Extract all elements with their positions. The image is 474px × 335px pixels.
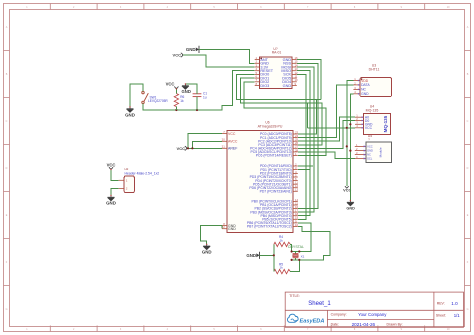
svg-text:CRYSTAL: CRYSTAL [288, 245, 304, 249]
pin 3 3.3V [255, 66, 260, 68]
svg-text:GND: GND [186, 47, 196, 52]
pin 19 PB5 [293, 218, 298, 220]
wire U6 GND pins [221, 226, 223, 229]
svg-text:AVCC: AVCC [228, 140, 238, 144]
svg-text:MQ-135: MQ-135 [366, 109, 379, 113]
pin 25 PC2 [293, 140, 298, 142]
pin 16 GND [292, 59, 297, 61]
pin 21 AREF [222, 147, 227, 149]
pin 14 PB0 [293, 200, 298, 202]
wire crystal leads [292, 251, 300, 253]
svg-text:GND: GND [346, 207, 355, 211]
wire PD0 stub [298, 165, 313, 167]
wire PB7 to crystal bottom [298, 226, 330, 260]
wire gnd to rail [260, 254, 274, 256]
wire MOSI to PB3 [297, 67, 314, 212]
svg-text:VCC: VCC [228, 132, 236, 136]
pin 1 [119, 179, 125, 181]
ground U6 [203, 244, 210, 249]
svg-text:RA-01: RA-01 [272, 51, 282, 55]
pin 2 PD0 [293, 165, 298, 167]
svg-text:GND: GND [228, 227, 236, 231]
wire VCC to RA-01 pin3 [183, 55, 255, 67]
svg-text:1k: 1k [180, 99, 184, 103]
pin 22 GND [222, 228, 227, 230]
pin 4 SCL [355, 158, 366, 160]
svg-text:NC: NC [367, 153, 371, 157]
node reset-C1 [196, 109, 198, 111]
pin 2 GND [255, 62, 260, 64]
pin 7 DIO2 [255, 81, 260, 83]
wire DIO0 net [236, 74, 321, 99]
wire DIO1 net [240, 78, 322, 145]
pin 11 DIO5 [292, 77, 297, 79]
svg-text:G: G [6, 308, 8, 311]
svg-text:VCC: VCC [365, 126, 373, 130]
ground C1 [182, 84, 189, 89]
pin 4 RESET [255, 70, 260, 72]
svg-text:REV:: REV: [437, 301, 445, 305]
node xtal-c [291, 259, 293, 261]
pin 10 DIO4 [292, 81, 297, 83]
wire MQ A0 to PC2 [298, 117, 355, 141]
svg-text:GND: GND [125, 112, 135, 117]
svg-text:Company:: Company: [331, 313, 347, 317]
pin 1 VDD [353, 80, 360, 82]
svg-text:U5: U5 [368, 134, 373, 138]
svg-text:Date:: Date: [331, 322, 339, 326]
pin 15 NSS [292, 62, 297, 64]
pin 1 PC6 [293, 155, 298, 157]
wire R6 leads [175, 89, 177, 94]
sensor U4 MQ-135 [364, 114, 391, 135]
sensor U3 DHT11 [360, 78, 392, 97]
node mq-vcc [346, 127, 348, 129]
svg-text:1k: 1k [280, 238, 284, 242]
node vcc-b [191, 147, 193, 149]
svg-text:Header-Male-2.54_1x2: Header-Male-2.54_1x2 [125, 172, 160, 176]
wire PD1 stub [298, 169, 310, 171]
svg-text:VDD: VDD [361, 79, 369, 83]
wire MISO to PB4 [297, 71, 310, 216]
svg-text:NC: NC [361, 88, 366, 92]
svg-text:D: D [6, 167, 8, 170]
wire VCC to AVCC pin20 [192, 141, 222, 148]
svg-text:C: C [6, 120, 8, 123]
svg-text:EasyEDA: EasyEDA [300, 318, 325, 324]
wire R4 right to crystal top [290, 244, 292, 251]
EasyEDA logo [287, 314, 298, 322]
svg-text:13: 13 [295, 188, 299, 192]
resistor R6 [174, 94, 178, 107]
pin 3 NC [353, 88, 360, 90]
resistor R5 [274, 269, 291, 273]
svg-text:AREF: AREF [228, 147, 237, 151]
svg-text:Sheet_1: Sheet_1 [308, 301, 331, 307]
wire C1 leads [196, 97, 198, 110]
pin 6 PD4 [293, 180, 298, 182]
svg-text:MQ-135: MQ-135 [383, 115, 388, 132]
pin 7 VCC [222, 133, 227, 135]
pin 4 GND [353, 93, 360, 95]
pin 9 GND [292, 85, 297, 87]
title block [285, 292, 463, 327]
svg-text:DATA: DATA [361, 83, 370, 87]
connector H2 Header-Male-2.54_1x2 [124, 176, 134, 193]
svg-text:20: 20 [222, 138, 226, 142]
pin 3 GND [355, 123, 364, 125]
pin 2 DATA [353, 84, 360, 86]
resistor R4 [274, 242, 291, 246]
pin 13 PD7 [293, 190, 298, 192]
wire R5 right to crystal bottom [290, 260, 299, 272]
wire DIO2 to PC6 [244, 82, 326, 156]
pin 14 MOSI [292, 66, 297, 68]
svg-text:DIO3: DIO3 [260, 84, 269, 88]
pin 3 NC [355, 154, 366, 156]
power flag VCC R6 [174, 86, 178, 88]
pin 8 GND [222, 225, 227, 227]
pin 2 [119, 188, 125, 190]
ground H2 [111, 189, 119, 196]
svg-text:LEVQ22705R: LEVQ22705R [148, 99, 168, 103]
svg-text:Your Company: Your Company [358, 312, 387, 317]
wire R4/R5 left rail [273, 244, 275, 271]
pin 28 PC5 [293, 151, 298, 153]
ground SW1 [127, 107, 134, 112]
svg-text:GND: GND [246, 253, 256, 258]
svg-text:VCC: VCC [173, 53, 182, 58]
svg-text:1.0: 1.0 [451, 301, 458, 306]
wire MQ VCC row [308, 127, 355, 129]
svg-text:VCC: VCC [177, 146, 186, 151]
node rail [273, 254, 275, 256]
wire VCC to AREF [187, 147, 222, 149]
crystal X1 [293, 254, 299, 258]
pin 27 PC4 [293, 147, 298, 149]
svg-text:GND: GND [202, 250, 212, 255]
svg-text:GND: GND [182, 89, 191, 94]
node xtal-a [291, 250, 293, 252]
pin 23 PC0 [293, 133, 298, 135]
wire GND to RA-01 pin2 [199, 49, 255, 63]
svg-text:21: 21 [222, 145, 226, 149]
svg-text:VCC: VCC [367, 145, 373, 149]
pin 26 PC3 [293, 144, 298, 146]
wire DHT DATA to PC1 [298, 85, 354, 138]
pin 2 D0 [355, 120, 364, 122]
svg-text:PB7 (PCINT7/XTAL2/TOSC2): PB7 (PCINT7/XTAL2/TOSC2) [247, 225, 292, 229]
pin 10 PB7 [293, 225, 298, 227]
svg-text:Sheet:: Sheet: [436, 313, 446, 317]
pin 15 PB1 [293, 204, 298, 206]
wire SCK to PB5 [297, 74, 306, 219]
node xtal-d [298, 259, 300, 261]
wire GND rail sensors [350, 94, 353, 201]
svg-text:X1: X1 [301, 254, 305, 258]
pin 24 PC1 [293, 137, 298, 139]
svg-text:1k: 1k [280, 266, 284, 270]
svg-text:H2: H2 [125, 167, 129, 171]
wire MQ D0 to PC4 [298, 121, 355, 149]
node vcc-a [187, 147, 189, 149]
wire RA-01 GND hook [297, 60, 321, 100]
svg-text:Drawn By:: Drawn By: [387, 322, 403, 326]
svg-text:GND: GND [106, 200, 116, 205]
op-module U? RA-01 [259, 57, 292, 89]
pin 13 MISO [292, 70, 297, 72]
svg-text:2021-04-26: 2021-04-26 [352, 322, 376, 327]
svg-text:DHT11: DHT11 [369, 68, 380, 72]
pin 3 PD1 [293, 169, 298, 171]
pin 11 PD5 [293, 183, 298, 185]
power flag VCC sensors [345, 186, 349, 188]
svg-text:D: D [467, 167, 469, 170]
switch SW1 LEVQ22705R [142, 91, 149, 103]
VCC flag H2 [111, 170, 119, 181]
pin 1 ANT [255, 59, 260, 61]
pin 16 PB2 [293, 208, 298, 210]
ground sensors [347, 201, 354, 206]
wire VCC rail sensors [347, 81, 354, 187]
svg-text:PC6 (PCINT14/RESET): PC6 (PCINT14/RESET) [256, 154, 292, 158]
svg-text:C: C [467, 120, 469, 123]
pin 18 PB4 [293, 215, 298, 217]
wire SW1 top to ground [130, 84, 143, 107]
node reset-R6 [175, 109, 177, 111]
pin 17 PB3 [293, 211, 298, 213]
node mq-gnd [349, 123, 351, 125]
node u5-vcc [346, 145, 348, 147]
svg-text:1u: 1u [203, 96, 207, 100]
svg-text:GND: GND [367, 149, 373, 153]
svg-text:GND: GND [361, 92, 369, 96]
node u5-gnd [349, 150, 351, 152]
pin 4 VCC [355, 127, 364, 129]
svg-text:SCL: SCL [367, 157, 373, 161]
pin 12 SCK [292, 73, 297, 75]
wire PB6 to crystal top [298, 223, 311, 252]
pin 5 DIO0 [255, 73, 260, 75]
wire NSS to PB2 [297, 63, 318, 208]
svg-text:Module: Module [379, 147, 383, 157]
svg-text:VCC: VCC [107, 162, 116, 167]
svg-text:G: G [467, 308, 469, 311]
svg-text:PD7 (PCINT23/AIN1): PD7 (PCINT23/AIN1) [260, 190, 292, 194]
wire U5 pin4 to PC5 [298, 152, 355, 159]
MCU U6 ATmega328-PU [227, 130, 293, 232]
svg-text:VCC: VCC [166, 82, 175, 87]
pin 20 AVCC [222, 140, 227, 142]
pin 4 PD2 [293, 172, 298, 174]
wire VCC to VCC pin7 [188, 134, 222, 149]
svg-text:1/1: 1/1 [454, 313, 461, 318]
pin 1 A0 [355, 116, 364, 118]
capacitor C1 [193, 94, 202, 97]
wire reset net [143, 71, 255, 110]
svg-text:ATmega328-PU: ATmega328-PU [258, 125, 283, 129]
pin 12 PD6 [293, 187, 298, 189]
pin 6 DIO1 [255, 77, 260, 79]
pin 9 PB6 [293, 222, 298, 224]
pin 5 PD3 [293, 176, 298, 178]
svg-text:TITLE:: TITLE: [289, 294, 300, 298]
pin 2 GND [355, 150, 366, 152]
node xtal-b [298, 250, 300, 252]
svg-text:GND: GND [283, 84, 292, 88]
pin 1 VCC [355, 145, 366, 147]
module U5 [366, 142, 392, 163]
pin 8 DIO3 [255, 85, 260, 87]
